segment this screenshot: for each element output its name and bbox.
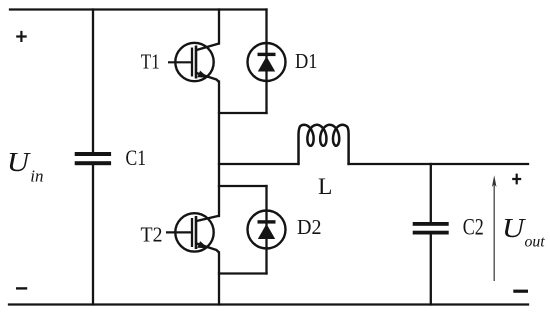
wire C1 branch upper (92, 10, 94, 153)
svg-text:D1: D1 (295, 49, 318, 73)
label + (input positive) (16, 31, 27, 42)
diode D2 (248, 211, 286, 249)
capacitor C2 (413, 222, 449, 235)
svg-text:T1: T1 (141, 49, 160, 73)
svg-text:C2: C2 (463, 215, 484, 240)
svg-text:L: L (318, 174, 332, 200)
svg-text:D2: D2 (297, 215, 322, 239)
label Uout (502, 213, 526, 243)
wire C1 branch lower (92, 165, 94, 305)
wire C2 branch upper (430, 164, 432, 222)
wire T1 emitter to T2 collector vertical (218, 82, 220, 217)
label - (input negative) (16, 287, 27, 289)
wire D2 vertical branch (265, 186, 267, 274)
label - (output negative) (513, 290, 528, 293)
wire C2 branch lower (430, 235, 432, 305)
transistor T1 (IGBT) (168, 43, 219, 82)
wire D1 vertical branch (265, 10, 267, 114)
capacitor C1 (75, 152, 111, 165)
wire T2 emitter to bottom rail (218, 253, 220, 305)
wire bottom rail (9, 303, 528, 305)
arrow Uout direction (492, 175, 497, 281)
svg-text:U: U (502, 213, 526, 243)
transistor T2 (IGBT) (166, 213, 219, 252)
wire mid rail (node between T1/T2 to inductor) (219, 163, 299, 165)
wire output rail (349, 163, 529, 165)
wire D2 bottom connection (219, 272, 267, 274)
wire top rail (10, 8, 267, 10)
diode D1 (248, 43, 286, 81)
svg-text:out: out (525, 234, 546, 251)
svg-text:in: in (30, 166, 43, 185)
svg-text:U: U (7, 147, 31, 177)
svg-text:T2: T2 (141, 222, 163, 246)
wire D2 top connection (219, 185, 267, 187)
label + (output positive) (512, 174, 521, 185)
label Uin (7, 147, 31, 177)
wire T1 collector drop (218, 10, 220, 44)
wire D1 bottom connection (219, 112, 267, 114)
svg-text:C1: C1 (126, 145, 147, 170)
inductor L coil (299, 125, 349, 164)
